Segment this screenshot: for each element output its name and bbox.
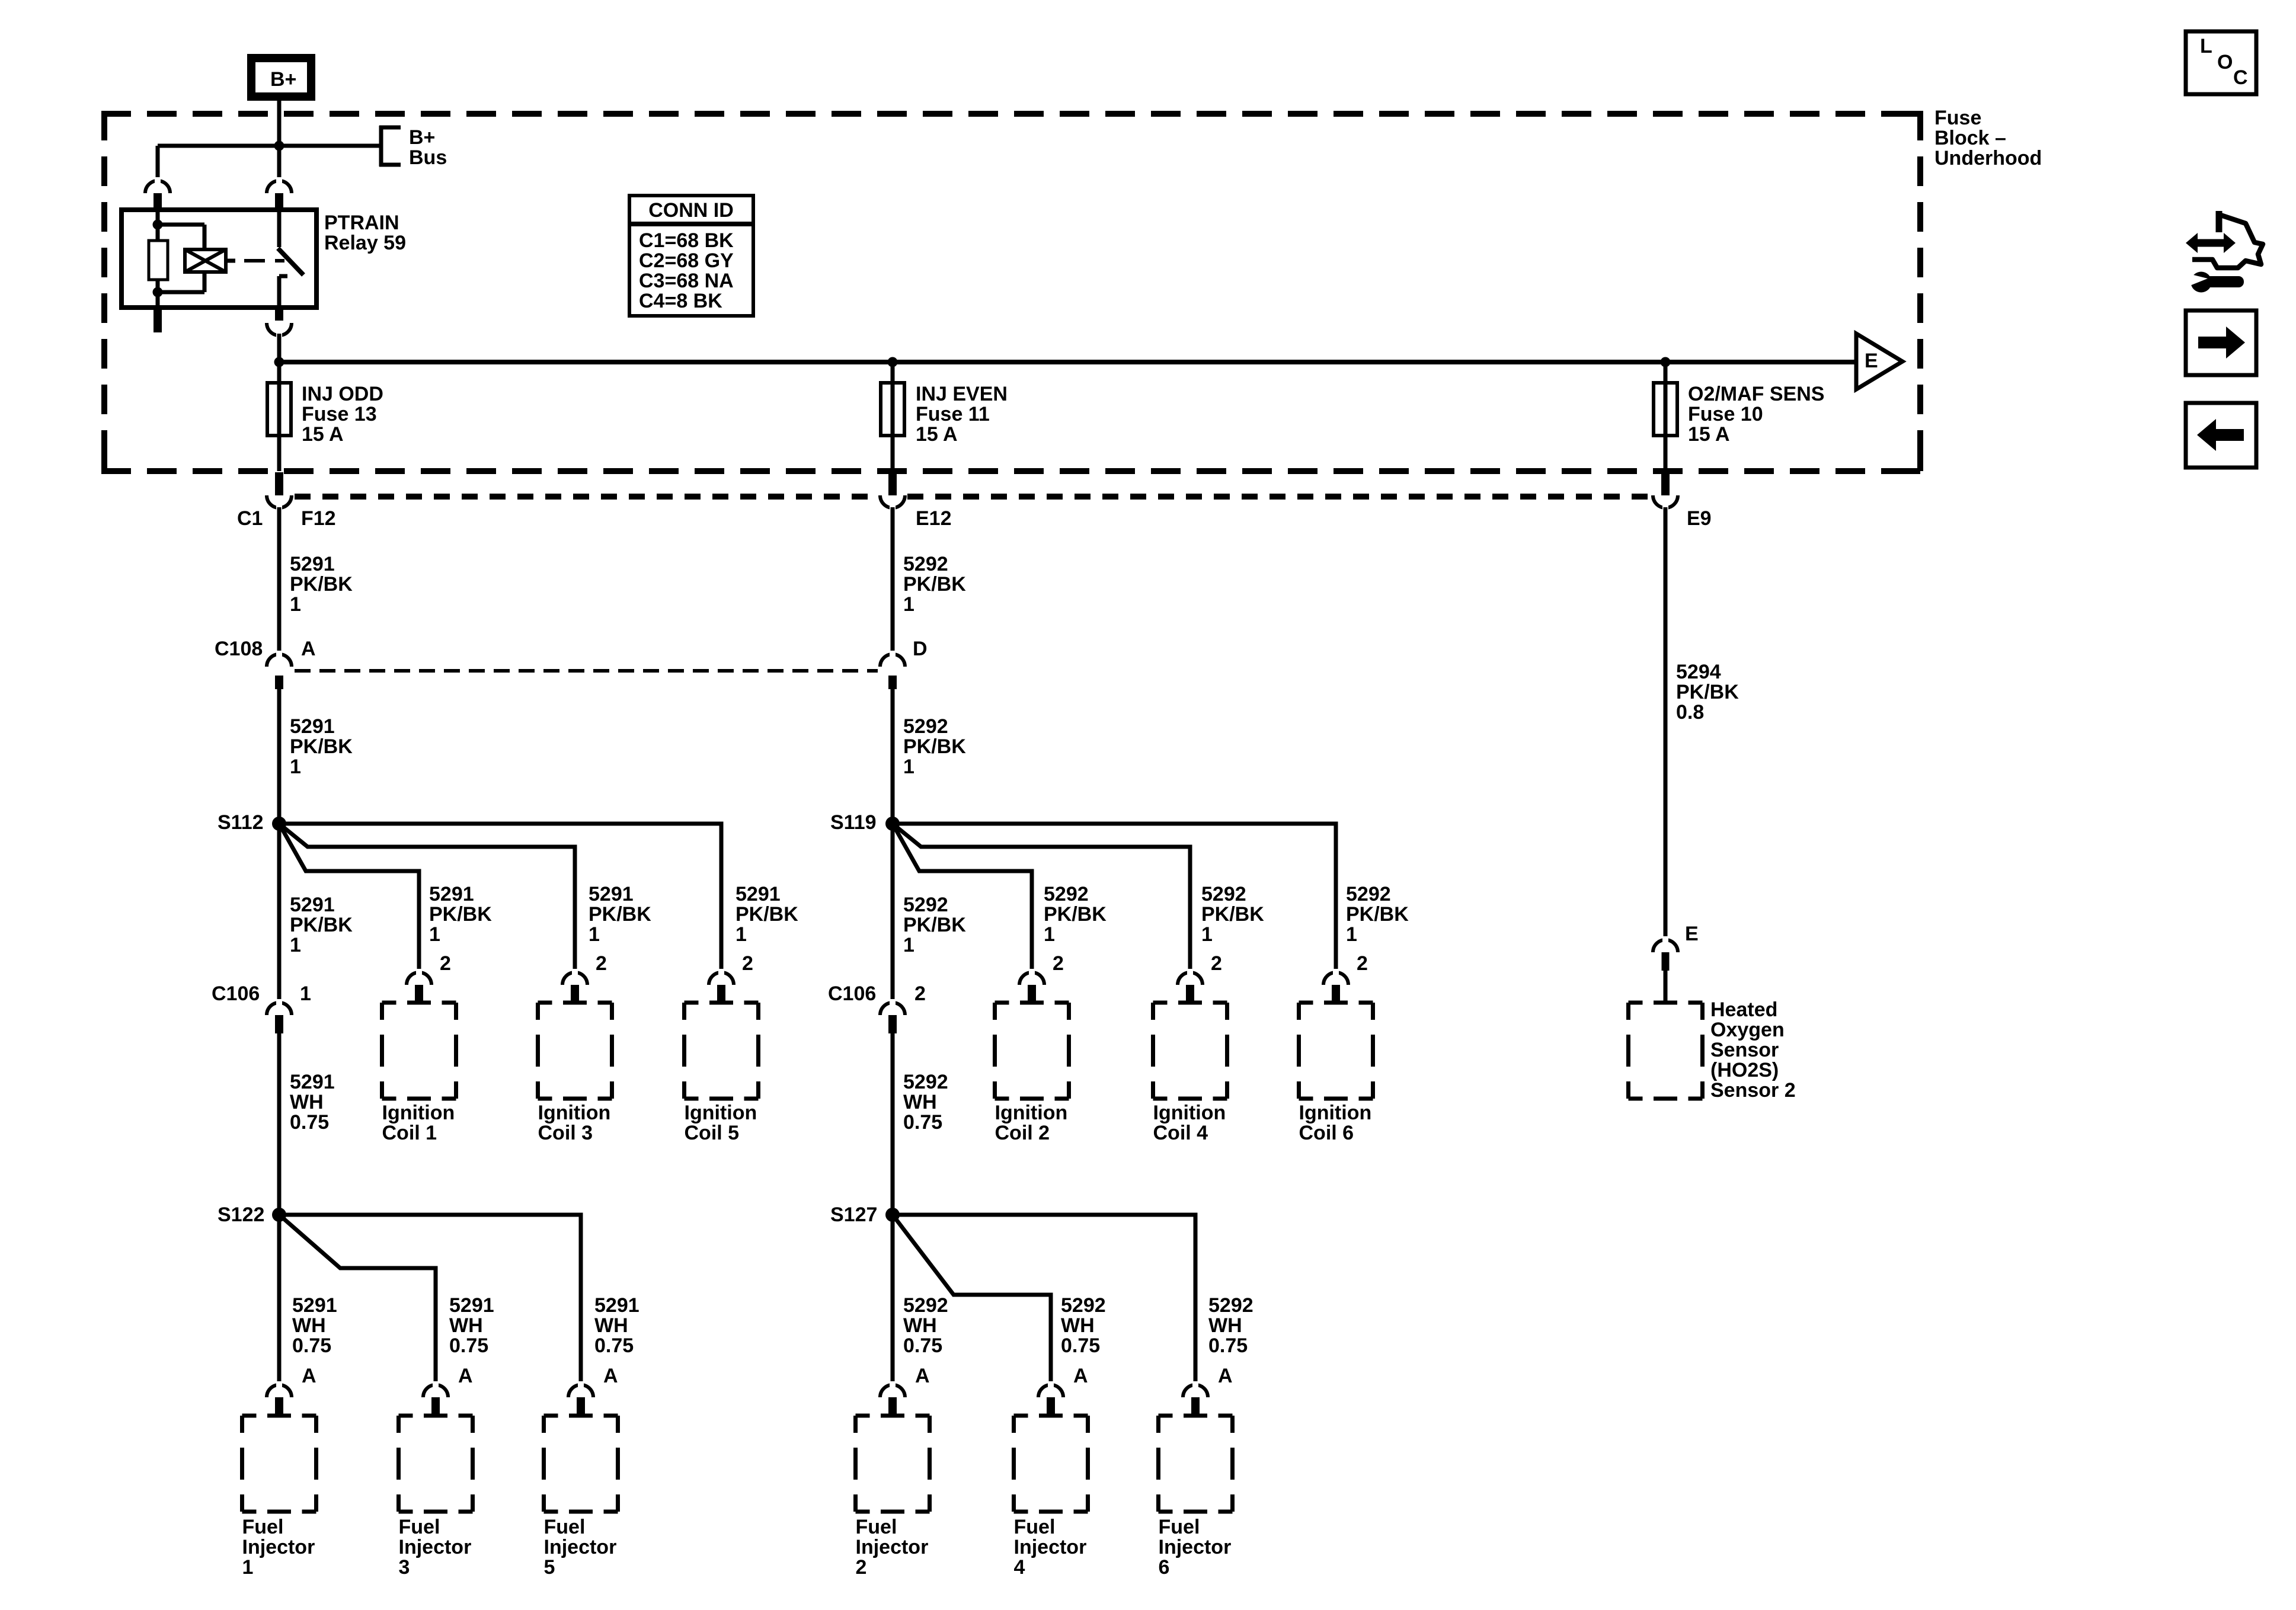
wire 5291 down to C106 — [277, 824, 282, 1003]
svg-text:Injector: Injector — [242, 1536, 315, 1558]
connector fuel injector 4 pin A — [1038, 1385, 1063, 1397]
svg-text:5291: 5291 — [449, 1294, 494, 1317]
svg-text:Injector: Injector — [1159, 1536, 1232, 1558]
svg-text:0.75: 0.75 — [449, 1334, 488, 1357]
svg-text:WH: WH — [594, 1314, 628, 1337]
connector ignition coil 4 pin 2 — [1178, 972, 1203, 985]
svg-text:1: 1 — [903, 756, 914, 778]
svg-text:CONN ID: CONN ID — [648, 199, 734, 222]
svg-text:INJ EVEN: INJ EVEN — [916, 383, 1008, 405]
svg-text:0.75: 0.75 — [1061, 1334, 1100, 1357]
svg-text:1: 1 — [300, 982, 311, 1005]
svg-text:WH: WH — [1061, 1314, 1095, 1337]
svg-text:O2/MAF SENS: O2/MAF SENS — [1688, 383, 1824, 405]
svg-text:B+: B+ — [409, 126, 435, 149]
fuel injector 4 — [1014, 1414, 1028, 1418]
wire 5291 to injector near — [277, 1215, 282, 1385]
connector C108 D — [880, 654, 905, 667]
svg-text:C106: C106 — [212, 982, 260, 1005]
ignition coil 1 — [382, 1001, 396, 1005]
svg-text:Fuel: Fuel — [1014, 1516, 1056, 1538]
svg-text:6: 6 — [1159, 1556, 1170, 1579]
svg-text:Fuse 10: Fuse 10 — [1688, 403, 1763, 425]
wire coil branch bottom — [203, 272, 207, 292]
wire D to S119 — [891, 689, 895, 824]
svg-text:A: A — [1073, 1365, 1088, 1387]
node fuse 11 tap — [888, 357, 898, 367]
wire E9 to HO2S — [1664, 507, 1668, 940]
svg-text:5292: 5292 — [903, 894, 948, 916]
svg-text:Sensor: Sensor — [1710, 1039, 1779, 1061]
connector line C1 dotted — [295, 494, 878, 500]
svg-text:5292: 5292 — [903, 553, 948, 575]
svg-text:5292: 5292 — [903, 1294, 948, 1317]
svg-text:1: 1 — [290, 934, 301, 956]
svg-text:0.75: 0.75 — [903, 1334, 942, 1357]
svg-text:C4=8 BK: C4=8 BK — [639, 290, 722, 312]
svg-text:B+: B+ — [270, 68, 296, 91]
wire 5291 to injector branch far — [279, 1215, 581, 1385]
svg-text:1: 1 — [290, 593, 301, 616]
wire coil branch top — [158, 223, 204, 227]
svg-text:Injector: Injector — [1014, 1536, 1087, 1558]
connector C1 pin F12 — [275, 472, 283, 495]
wire bus to fuse 13 — [277, 362, 282, 471]
svg-text:Coil 3: Coil 3 — [538, 1122, 593, 1144]
svg-text:C106: C106 — [828, 982, 876, 1005]
svg-text:Fuel: Fuel — [544, 1516, 586, 1538]
wire relay coil internal lower — [156, 280, 160, 308]
svg-text:E: E — [1685, 923, 1699, 945]
wire relay coil internal — [156, 210, 160, 241]
svg-text:L: L — [2200, 35, 2212, 57]
svg-text:2: 2 — [596, 952, 607, 975]
fuse block border corner dashes — [101, 444, 107, 471]
svg-text:5: 5 — [544, 1556, 555, 1579]
connector C1 pin E12 — [888, 472, 897, 495]
wire bus to fuse 11 — [891, 362, 895, 471]
svg-text:Fuel: Fuel — [242, 1516, 284, 1538]
svg-text:C: C — [2233, 66, 2248, 89]
svg-text:Relay 59: Relay 59 — [324, 232, 406, 254]
ignition coil 4 — [1153, 1001, 1168, 1005]
svg-text:1: 1 — [1346, 923, 1357, 946]
fuel injector 6 — [1159, 1414, 1173, 1418]
svg-text:5292: 5292 — [1044, 883, 1089, 905]
svg-text:5292: 5292 — [1201, 883, 1246, 905]
fuse 13 — [267, 383, 291, 436]
svg-text:5291: 5291 — [290, 1071, 335, 1093]
svg-text:5291: 5291 — [594, 1294, 639, 1317]
svg-text:Ignition: Ignition — [382, 1102, 455, 1124]
wire 5292 to coil branch near — [893, 824, 1032, 972]
icon arrow right box — [2186, 311, 2256, 375]
node fuse 10 tap — [1661, 357, 1671, 367]
svg-text:Ignition: Ignition — [538, 1102, 611, 1124]
svg-text:A: A — [302, 1365, 316, 1387]
svg-text:PK/BK: PK/BK — [1346, 903, 1409, 926]
ignition coil 2 — [995, 1001, 1009, 1005]
svg-text:S122: S122 — [218, 1204, 264, 1226]
fuel injector 5 — [544, 1414, 558, 1418]
wire F12 to C108 — [277, 507, 282, 655]
svg-text:5291: 5291 — [290, 553, 335, 575]
svg-text:0.75: 0.75 — [594, 1334, 634, 1357]
svg-text:5291: 5291 — [736, 883, 781, 905]
svg-text:WH: WH — [290, 1091, 324, 1113]
wire 5291 WH to S122 — [277, 1033, 282, 1215]
svg-text:0.75: 0.75 — [1208, 1334, 1248, 1357]
connector ignition coil 5 pin 2 — [709, 972, 734, 985]
node fuse 13 tap — [274, 357, 284, 367]
connector ignition coil 1 pin 2 — [407, 972, 431, 985]
svg-text:5292: 5292 — [903, 715, 948, 738]
svg-text:Injector: Injector — [399, 1536, 472, 1558]
wire B+ to bus junction — [277, 101, 282, 146]
svg-text:C108: C108 — [215, 638, 263, 660]
svg-text:Bus: Bus — [409, 146, 447, 169]
fuel injector 2 — [856, 1414, 870, 1418]
icon vehicle with wrench — [2192, 215, 2263, 268]
svg-text:5291: 5291 — [589, 883, 634, 905]
svg-text:PK/BK: PK/BK — [1044, 903, 1107, 926]
svg-text:1: 1 — [290, 756, 301, 778]
svg-text:E: E — [1865, 350, 1878, 372]
svg-text:4: 4 — [1014, 1556, 1025, 1579]
svg-text:Ignition: Ignition — [1299, 1102, 1372, 1124]
connector fuse block pin E9 — [1661, 472, 1670, 495]
ignition coil 6 — [1299, 1001, 1313, 1005]
svg-text:Ignition: Ignition — [685, 1102, 757, 1124]
svg-text:5292: 5292 — [903, 1071, 948, 1093]
svg-text:PK/BK: PK/BK — [589, 903, 651, 926]
svg-text:PK/BK: PK/BK — [736, 903, 798, 926]
svg-text:Fuel: Fuel — [856, 1516, 897, 1538]
svg-text:PK/BK: PK/BK — [1201, 903, 1264, 926]
ignition coil 3 — [538, 1001, 552, 1005]
svg-text:Fuse: Fuse — [1934, 107, 1981, 129]
svg-text:Coil 4: Coil 4 — [1153, 1122, 1208, 1144]
terminal B+ Bus — [379, 126, 383, 167]
wire 5292 down to C106 — [891, 824, 895, 1003]
node relay coil top — [153, 220, 163, 230]
wire 5292 to injector branch far — [893, 1215, 1195, 1385]
fuse 11 — [881, 383, 904, 436]
wire E12 to D — [891, 507, 895, 655]
svg-text:WH: WH — [903, 1091, 937, 1113]
splice S112 — [272, 817, 286, 831]
svg-text:S119: S119 — [830, 811, 877, 834]
svg-text:A: A — [458, 1365, 473, 1387]
connector fuel injector 1 pin A — [267, 1385, 292, 1397]
svg-text:Coil 1: Coil 1 — [382, 1122, 437, 1144]
ignition coil 5 — [685, 1001, 699, 1005]
svg-text:Injector: Injector — [856, 1536, 929, 1558]
svg-text:C2=68 GY: C2=68 GY — [639, 249, 734, 272]
icon arrow left box — [2186, 403, 2256, 468]
svg-text:PK/BK: PK/BK — [903, 573, 966, 596]
svg-text:15 A: 15 A — [1688, 423, 1730, 446]
svg-text:C1: C1 — [237, 507, 263, 530]
svg-text:WH: WH — [449, 1314, 483, 1337]
connector fuel injector 5 pin A — [568, 1385, 593, 1397]
svg-text:Fuel: Fuel — [399, 1516, 440, 1538]
svg-text:WH: WH — [292, 1314, 326, 1337]
svg-text:PK/BK: PK/BK — [903, 735, 966, 758]
svg-text:E9: E9 — [1687, 507, 1712, 530]
svg-text:PK/BK: PK/BK — [429, 903, 492, 926]
svg-text:A: A — [603, 1365, 618, 1387]
svg-text:Coil 5: Coil 5 — [685, 1122, 740, 1144]
wire 5291 to coil branch mid — [279, 824, 575, 972]
wire 5292 to coil branch mid — [893, 824, 1190, 972]
svg-text:Fuse 13: Fuse 13 — [302, 403, 377, 425]
wire 5292 to injector near — [891, 1215, 895, 1385]
svg-text:Underhood: Underhood — [1934, 147, 2042, 169]
splice S127 — [885, 1208, 900, 1222]
svg-text:0.8: 0.8 — [1676, 701, 1704, 724]
svg-text:0.75: 0.75 — [903, 1111, 942, 1134]
wire 5291 to injector branch mid — [279, 1215, 436, 1385]
connector fuel injector 3 pin A — [423, 1385, 448, 1397]
fuse 10 — [1654, 383, 1677, 436]
svg-text:Ignition: Ignition — [995, 1102, 1068, 1124]
svg-text:PK/BK: PK/BK — [903, 914, 966, 936]
svg-text:2: 2 — [1357, 952, 1368, 975]
connector relay output — [275, 308, 283, 321]
svg-text:5294: 5294 — [1676, 661, 1721, 683]
svg-text:Coil 2: Coil 2 — [995, 1122, 1050, 1144]
svg-text:5292: 5292 — [1061, 1294, 1106, 1317]
net reference arrow E — [1856, 334, 1902, 389]
svg-text:Block –: Block – — [1934, 127, 2006, 149]
resistor relay — [149, 241, 168, 280]
svg-text:S127: S127 — [830, 1204, 877, 1226]
svg-text:2: 2 — [440, 952, 451, 975]
wire C108 to S112 — [277, 689, 282, 824]
fuel injector 1 — [242, 1414, 257, 1418]
svg-text:2: 2 — [742, 952, 753, 975]
svg-text:PK/BK: PK/BK — [290, 735, 353, 758]
svg-text:E12: E12 — [916, 507, 952, 530]
svg-text:PK/BK: PK/BK — [290, 914, 353, 936]
svg-text:5291: 5291 — [292, 1294, 337, 1317]
svg-text:Coil 6: Coil 6 — [1299, 1122, 1354, 1144]
svg-text:5292: 5292 — [1346, 883, 1391, 905]
connector fuel injector 6 pin A — [1183, 1385, 1208, 1397]
svg-text:1: 1 — [1044, 923, 1055, 946]
svg-text:C1=68 BK: C1=68 BK — [639, 229, 734, 252]
svg-text:Oxygen: Oxygen — [1710, 1019, 1785, 1041]
svg-text:A: A — [301, 638, 316, 660]
splice S122 — [272, 1208, 286, 1222]
wire 5292 WH to S127 — [891, 1033, 895, 1215]
svg-text:PK/BK: PK/BK — [1676, 681, 1739, 703]
svg-text:2: 2 — [1053, 952, 1064, 975]
svg-text:5292: 5292 — [1208, 1294, 1253, 1317]
svg-text:2: 2 — [856, 1556, 867, 1579]
svg-text:S112: S112 — [218, 811, 264, 834]
svg-text:1: 1 — [429, 923, 440, 946]
connector fuel injector 2 pin A — [880, 1385, 905, 1397]
connector ignition coil 2 pin 2 — [1019, 972, 1044, 985]
power symbol B+ — [251, 58, 311, 97]
connector ignition coil 6 pin 2 — [1323, 972, 1348, 985]
svg-text:2: 2 — [914, 982, 926, 1005]
svg-text:PTRAIN: PTRAIN — [324, 212, 399, 234]
connector C108 A — [267, 654, 292, 667]
svg-text:O: O — [2217, 51, 2233, 73]
wire main feed bus — [279, 360, 1856, 364]
splice S119 — [885, 817, 900, 831]
connector relay pin 30 — [267, 181, 292, 193]
relay coil element — [185, 249, 226, 272]
svg-text:15 A: 15 A — [916, 423, 958, 446]
svg-text:15 A: 15 A — [302, 423, 344, 446]
wire 5292 to coil branch far — [893, 824, 1336, 972]
svg-text:1: 1 — [589, 923, 600, 946]
node relay coil bottom — [153, 287, 163, 297]
wire B+ to relay switch pin — [277, 146, 282, 182]
svg-text:A: A — [915, 1365, 930, 1387]
svg-text:Sensor 2: Sensor 2 — [1710, 1079, 1796, 1102]
svg-text:Ignition: Ignition — [1153, 1102, 1226, 1124]
svg-text:WH: WH — [1208, 1314, 1242, 1337]
svg-text:0.75: 0.75 — [292, 1334, 331, 1357]
svg-text:1: 1 — [736, 923, 747, 946]
connector relay pin 86 — [145, 181, 170, 193]
svg-text:3: 3 — [399, 1556, 410, 1579]
svg-text:WH: WH — [903, 1314, 937, 1337]
svg-text:C3=68 NA: C3=68 NA — [639, 270, 734, 292]
connector C108 dashed line — [295, 669, 878, 673]
wire HO2S pigtail — [1664, 971, 1668, 1003]
svg-text:1: 1 — [1201, 923, 1213, 946]
table CONN ID — [629, 196, 753, 316]
wire 5291 to coil branch near — [279, 824, 419, 972]
svg-text:2: 2 — [1211, 952, 1222, 975]
wire relay output to bus — [277, 334, 282, 362]
relay switch — [277, 210, 282, 247]
relay actuator dashed link — [226, 259, 235, 263]
connector ignition coil 3 pin 2 — [562, 972, 587, 985]
connector HO2S pin E — [1653, 940, 1678, 952]
svg-text:Injector: Injector — [544, 1536, 617, 1558]
svg-text:F12: F12 — [301, 507, 336, 530]
heated oxygen sensor HO2S sensor 2 — [1629, 1001, 1643, 1005]
node bus junction — [274, 141, 284, 151]
svg-text:A: A — [1218, 1365, 1233, 1387]
svg-text:INJ ODD: INJ ODD — [302, 383, 383, 405]
wire to relay coil pin — [156, 146, 160, 182]
svg-text:Fuel: Fuel — [1159, 1516, 1200, 1538]
relay PTRAIN Relay 59 — [121, 210, 316, 308]
wire bus horizontal — [158, 144, 379, 148]
fuse block underhood dashed border — [101, 111, 1923, 117]
svg-text:1: 1 — [903, 593, 914, 616]
wire bus to fuse 10 — [1664, 362, 1668, 471]
icon LOC box — [2186, 31, 2256, 94]
svg-text:D: D — [913, 638, 928, 660]
svg-text:Heated: Heated — [1710, 998, 1777, 1021]
svg-text:PK/BK: PK/BK — [290, 573, 353, 596]
svg-text:1: 1 — [903, 934, 914, 956]
wire 5291 to coil branch far — [279, 824, 721, 972]
fuel injector 3 — [399, 1414, 413, 1418]
svg-text:1: 1 — [242, 1556, 254, 1579]
svg-text:(HO2S): (HO2S) — [1710, 1059, 1779, 1081]
svg-text:5291: 5291 — [290, 715, 335, 738]
svg-text:0.75: 0.75 — [290, 1111, 329, 1134]
svg-text:5291: 5291 — [429, 883, 474, 905]
wire 5292 to injector branch mid — [893, 1215, 1051, 1385]
relay coil ground pin stub — [154, 308, 162, 332]
svg-text:5291: 5291 — [290, 894, 335, 916]
svg-text:Fuse 11: Fuse 11 — [916, 403, 990, 425]
